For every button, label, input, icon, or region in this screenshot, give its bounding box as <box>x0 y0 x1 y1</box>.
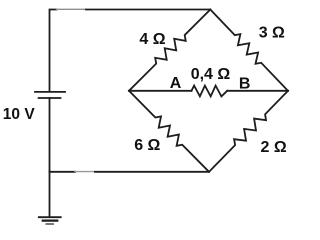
svg-text:A: A <box>170 75 182 92</box>
svg-text:10 V: 10 V <box>3 106 36 123</box>
svg-text:0,4 Ω: 0,4 Ω <box>191 66 231 83</box>
svg-text:3 Ω: 3 Ω <box>259 24 285 41</box>
svg-text:4 Ω: 4 Ω <box>139 31 165 48</box>
svg-text:2 Ω: 2 Ω <box>261 139 287 156</box>
svg-text:B: B <box>239 76 251 93</box>
svg-text:6 Ω: 6 Ω <box>134 137 160 154</box>
